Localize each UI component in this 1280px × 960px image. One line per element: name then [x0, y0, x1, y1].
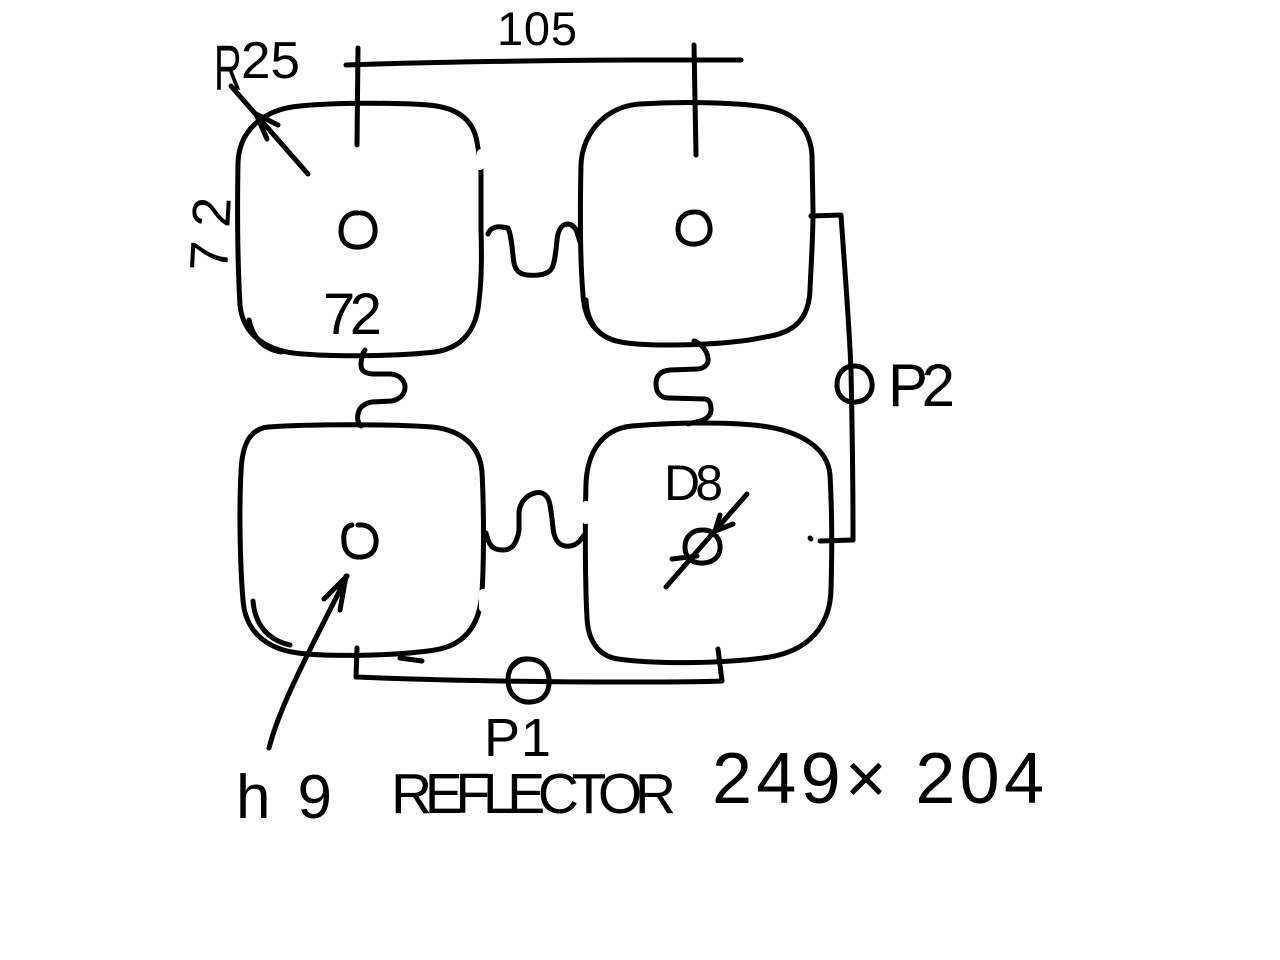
svg-text:D8: D8 [664, 455, 723, 511]
pen-lift gap on BR square left edge [582, 505, 590, 520]
svg-text:72: 72 [179, 196, 243, 273]
dimension tick right [694, 45, 696, 155]
pin P1 wire [356, 648, 722, 682]
hole top-left square [341, 213, 375, 247]
diameter slash arrow [666, 494, 747, 587]
hole bottom-right square [685, 530, 720, 563]
svg-text:25: 25 [241, 32, 300, 90]
hole top-right square [678, 212, 710, 244]
pin P2 wire [811, 215, 853, 541]
panel square bottom-left [240, 425, 484, 656]
svg-text:105: 105 [497, 2, 577, 55]
panel square top-right [580, 103, 813, 345]
svg-text:P1: P1 [484, 708, 551, 768]
pin P2 circle [837, 366, 872, 402]
leader arrow R25 [231, 86, 308, 174]
sprue connector bottom (between BL and BR squares) [486, 492, 585, 550]
stray dot near P2 stub [810, 538, 811, 539]
svg-text:249× 204: 249× 204 [712, 739, 1044, 819]
svg-text:REFLECTOR: REFLECTOR [391, 762, 676, 826]
panel square bottom-right [585, 423, 831, 663]
svg-text:P2: P2 [888, 352, 955, 419]
sprue connector top (between TL and TR squares) [488, 224, 580, 275]
double stroke bottom-left corner TL square [249, 320, 281, 352]
svg-text:h9: h9 [236, 763, 332, 832]
panel square top-left [238, 103, 482, 355]
hole bottom-left square [344, 525, 376, 557]
sprue connector left (between TL and BL squares) [358, 350, 405, 426]
double stroke bottom-left corner BL square [253, 601, 290, 645]
dimension line 105 (horizontal) [346, 60, 741, 65]
pen-lift gap on TL square right edge [480, 153, 481, 166]
svg-text:72: 72 [323, 282, 382, 347]
bottom edge overlap dash [400, 658, 422, 661]
sprue connector right (between TR and BR squares) [656, 341, 711, 424]
double stroke bottom-left corner TR square [586, 300, 616, 341]
pin P1 circle [508, 659, 549, 702]
dimension tick left [357, 48, 358, 145]
leader arrow h9 [269, 576, 347, 748]
pen-lift gap on BL square right edge [479, 593, 487, 608]
